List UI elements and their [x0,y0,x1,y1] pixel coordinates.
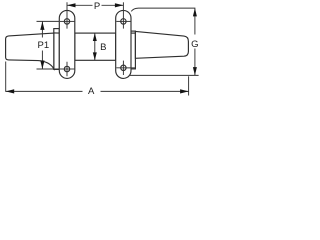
left body tube [6,33,54,69]
B dimension line [94,33,96,60]
G bottom extension [130,74,199,76]
hole top-right circle [121,19,126,24]
svg-text:B: B [100,42,106,53]
P1 up arrowhead [40,21,44,30]
B up arrowhead [93,33,97,41]
B down arrowhead [93,52,97,60]
G dimension line lower [194,49,196,76]
center shaft between lugs [75,33,116,60]
right flange ring [131,31,136,69]
hole top-left crosshair [60,20,74,22]
A dimension line [6,90,83,92]
svg-text:P1: P1 [37,40,49,51]
A left extension [5,62,7,92]
background [0,0,200,96]
tube edge over right flange [131,32,136,34]
P right arrowhead [115,3,124,7]
right lug plate [116,10,131,78]
tube edge over left flange [54,32,60,34]
A right extension [188,76,190,95]
svg-text:A: A [88,86,95,96]
hole bottom-left crosshair [60,68,74,70]
svg-text:G: G [191,39,198,50]
right body tube [135,31,188,58]
P1 dimension line [41,21,43,37]
G top extension [131,8,195,34]
G up arrowhead [193,8,197,16]
hole bottom-right crosshair [116,67,135,69]
hole bottom-right circle [121,65,126,70]
hole bottom-left circle [64,66,69,71]
A left arrowhead [6,89,15,93]
hole top-left circle [64,19,69,24]
P1 extension top [37,20,60,22]
P1 extension bottom [37,68,60,70]
P dimension line [67,4,93,6]
G down arrowhead [193,67,197,75]
A right arrowhead [180,89,189,93]
left lug plate [59,10,75,78]
svg-text:P: P [94,1,100,12]
hole top-right crosshair [116,20,130,22]
left flange ring [54,29,60,70]
P left arrowhead [67,3,76,7]
P1 down arrowhead [40,61,44,70]
